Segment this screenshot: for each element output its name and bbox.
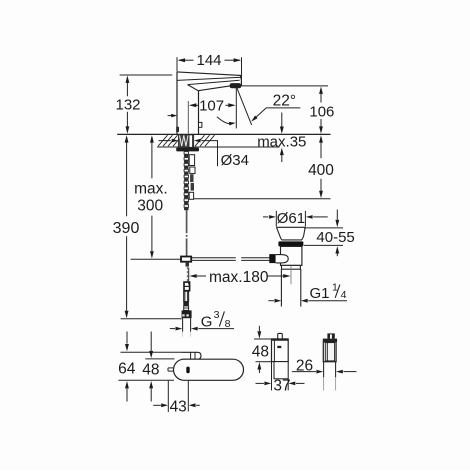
dim 106 top reference line	[241, 85, 329, 87]
box side view top bar	[323, 339, 337, 342]
linkage rod double line	[191, 257, 236, 259]
dim 4055 reference lines	[304, 227, 343, 229]
dim max300 line	[151, 137, 153, 178]
dim G114 arrows	[268, 300, 274, 302]
dim 107 line	[196, 104, 198, 106]
clip tab on body right edge	[199, 122, 202, 127]
dim 26 arrows	[292, 371, 316, 373]
pull rod chain below washer	[184, 152, 188, 155]
drain tailpipe	[280, 269, 282, 306]
dim 106 line	[320, 90, 322, 103]
dim 400 bottom reference line	[194, 198, 331, 200]
faucet body column	[176, 72, 178, 134]
box side view tab	[327, 333, 334, 338]
svg-text:390: 390	[113, 220, 140, 237]
dim max35 arrows	[281, 113, 283, 127]
dim 132 top reference line	[120, 74, 173, 76]
dim 132 line	[126, 78, 128, 97]
dim 144 line	[179, 59, 194, 61]
dim 4055 line	[336, 210, 338, 220]
deck top line	[117, 133, 330, 135]
cable connector pieces	[189, 155, 194, 166]
drain body	[281, 246, 302, 265]
box side view body	[323, 342, 336, 362]
drain flange	[276, 226, 305, 228]
rod clamp	[181, 257, 191, 262]
ref line A connector base	[121, 318, 182, 320]
dim 107 extension line at body center	[187, 101, 189, 134]
svg-text:400: 400	[308, 162, 334, 179]
dim 48R reference lines	[254, 338, 271, 340]
svg-text:Ø34: Ø34	[221, 152, 249, 169]
svg-text:8: 8	[225, 318, 231, 330]
linkage rod left segment	[131, 258, 181, 260]
svg-text:22°: 22°	[273, 93, 296, 110]
chain link coupler	[184, 282, 190, 291]
water stream vertical reference line	[235, 87, 237, 128]
box front view lower	[274, 362, 288, 379]
dim G38 arrows	[170, 328, 175, 330]
rod tail below clamp	[186, 262, 190, 267]
dim 43 extension lines	[167, 381, 169, 412]
drain o-ring band	[278, 241, 303, 246]
mounting bracket	[182, 352, 202, 359]
box side view lower column	[323, 362, 325, 378]
dim O61 extension lines	[275, 211, 277, 227]
capsule top reference line	[145, 358, 174, 360]
box front view upper	[272, 339, 289, 362]
dim 37 arrows	[256, 382, 264, 384]
svg-text:48: 48	[142, 362, 159, 379]
deck section hatching	[158, 135, 168, 146]
dim O61 arrows	[263, 216, 268, 218]
dim O34 arrows	[159, 140, 171, 142]
svg-text:G: G	[201, 313, 213, 330]
dim 48L arrows	[150, 332, 152, 351]
box front view dash	[277, 346, 281, 348]
svg-text:26: 26	[296, 357, 313, 374]
threaded shank below deck	[179, 135, 194, 148]
svg-text:37: 37	[273, 378, 290, 395]
angle arc with arrowhead	[217, 117, 232, 124]
connection pipe below G38 with break	[182, 318, 184, 331]
capsule bottom reference line	[118, 379, 174, 381]
detail mark on body base left edge	[176, 127, 179, 132]
svg-text:144: 144	[196, 52, 221, 69]
drain lower nut	[282, 265, 301, 269]
control unit capsule	[174, 359, 244, 380]
pull rod lower section with break	[186, 210, 188, 234]
mounting washer	[176, 148, 199, 152]
svg-text:106: 106	[309, 104, 334, 121]
svg-text:132: 132	[115, 97, 140, 114]
svg-text:G1: G1	[310, 285, 330, 302]
drain centerline	[290, 266, 292, 284]
sensor arrow on body	[168, 115, 172, 117]
capsule inlet nipple	[168, 367, 174, 369]
water stream 22 deg line	[237, 87, 252, 125]
svg-text:Ø61: Ø61	[277, 210, 305, 227]
dim max180 left extension	[188, 268, 190, 285]
bracket top reference line	[121, 351, 182, 353]
aerator at spout tip	[230, 83, 242, 88]
svg-text:max.35: max.35	[257, 134, 306, 151]
svg-text:300: 300	[137, 198, 163, 215]
capsule detail mark	[186, 367, 189, 374]
dim 390 line	[126, 137, 128, 216]
svg-text:64: 64	[118, 360, 136, 377]
leader line for 22 deg label	[253, 108, 300, 120]
svg-text:3: 3	[214, 309, 220, 321]
svg-text:4: 4	[341, 289, 347, 301]
dim 400 line	[320, 138, 322, 159]
svg-text:107: 107	[199, 97, 224, 114]
dim 144 extension lines	[176, 57, 178, 71]
dim 43 arrows	[153, 404, 161, 406]
svg-text:40-55: 40-55	[316, 229, 354, 246]
faucet spout outline	[177, 72, 241, 83]
dim max180 line	[189, 274, 196, 278]
deck bottom line	[157, 146, 280, 148]
dim 64 arrows	[126, 332, 128, 344]
dim 48R arrows	[258, 326, 260, 331]
drain side port	[269, 254, 275, 263]
svg-text:43: 43	[170, 398, 187, 415]
dim 37 extension lines	[271, 362, 273, 391]
hose lower end	[184, 291, 189, 301]
svg-text:48: 48	[252, 344, 269, 361]
svg-text:max.180: max.180	[209, 269, 269, 286]
svg-text:max.: max.	[134, 181, 168, 198]
box front view tab	[278, 333, 283, 339]
dim O34 leader	[201, 141, 217, 167]
